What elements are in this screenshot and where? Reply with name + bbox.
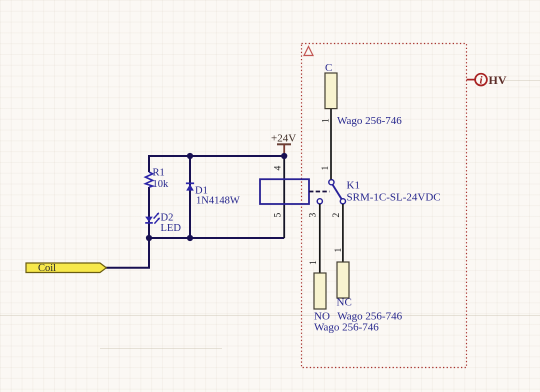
svg-text:NC: NC (337, 297, 352, 309)
svg-text:Coil: Coil (38, 263, 56, 274)
compile-mask triangle marker (304, 47, 313, 56)
svg-text:1: 1 (322, 118, 332, 123)
svg-text:R1: R1 (153, 168, 165, 179)
wire left rail lower segment (148, 187, 150, 238)
connector C body (325, 73, 337, 109)
svg-text:10k: 10k (153, 179, 170, 190)
svg-text:Wago 256-746: Wago 256-746 (337, 115, 402, 127)
svg-text:1N4148W: 1N4148W (196, 196, 240, 207)
relay switch NO contact circle (317, 199, 322, 204)
svg-text:LED: LED (161, 223, 182, 234)
wire D1 branch vertical (189, 156, 191, 238)
port Coil (26, 263, 106, 274)
svg-text:SRM-1C-SL-24VDC: SRM-1C-SL-24VDC (347, 192, 441, 204)
svg-text:1: 1 (309, 260, 319, 265)
svg-text:2: 2 (332, 213, 342, 218)
svg-text:+24V: +24V (271, 133, 296, 145)
svg-text:1: 1 (321, 166, 331, 171)
relay switch NC contact circle (340, 199, 345, 204)
pin wire switch pin3 to NO connector (319, 204, 321, 273)
relay armature (332, 184, 341, 199)
relay switch common circle (329, 180, 334, 185)
LED D2 symbol (145, 213, 159, 224)
svg-text:Wago 256-746: Wago 256-746 (314, 322, 379, 334)
svg-text:5: 5 (274, 213, 284, 218)
wire top horizontal (149, 155, 284, 157)
relay K1 coil rectangle (260, 179, 309, 204)
svg-text:3: 3 (309, 213, 319, 218)
junction dot at D1 bottom (187, 235, 193, 241)
junction dot at +24V (281, 153, 287, 159)
connector NO body (314, 273, 326, 309)
svg-text:HV: HV (489, 73, 507, 87)
major grid line horizontal (0, 81, 540, 349)
resistor R1 zigzag (145, 172, 152, 187)
svg-text:1: 1 (334, 248, 344, 253)
pin wire C connector to switch (330, 109, 332, 180)
wire left rail upper segment (148, 155, 150, 172)
relay coil pin line (pins 4/5 vertical) (283, 156, 285, 238)
svg-text:Wago 256-746: Wago 256-746 (337, 311, 402, 323)
svg-text:4: 4 (274, 166, 284, 171)
junction dot left bottom (146, 235, 152, 241)
pin wire switch pin2 to NC connector (342, 204, 344, 262)
HV guard area red dashed box (302, 44, 467, 368)
svg-text:C: C (325, 62, 332, 74)
wire bottom horizontal (149, 237, 284, 239)
wire from Coil port (106, 238, 149, 268)
junction dot at D1 top (187, 153, 193, 159)
svg-text:D2: D2 (161, 213, 174, 224)
svg-text:K1: K1 (347, 179, 360, 191)
HV note marker (467, 73, 507, 87)
power port +24V (271, 133, 296, 157)
connector NC body (337, 262, 349, 298)
diode D1 symbol (186, 183, 194, 190)
relay actuator dashed link (309, 191, 330, 193)
